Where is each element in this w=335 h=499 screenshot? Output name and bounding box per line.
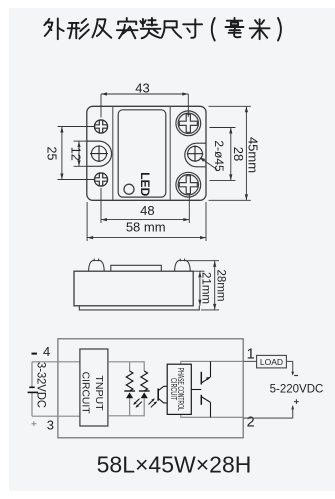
svg-text:25: 25 xyxy=(44,147,58,161)
dimension 25 (left) xyxy=(58,127,95,180)
svg-text:3-32VDC: 3-32VDC xyxy=(34,362,46,408)
output stage gray box xyxy=(181,361,243,417)
LED D1 emission arrows xyxy=(134,399,142,407)
SSR body outline (top view) xyxy=(87,106,206,200)
terminal screw bottom-right xyxy=(176,172,201,197)
米 xyxy=(250,19,270,39)
mounting hole right (circle + thin cross) xyxy=(187,145,204,162)
svg-text:58L×45W×28H: 58L×45W×28H xyxy=(97,452,252,478)
input circuit box U1 xyxy=(80,349,108,426)
side view body xyxy=(74,271,193,306)
（ xyxy=(212,18,215,41)
mounting hole left (circle + thin cross) xyxy=(90,145,108,162)
dimension 21mm (side) xyxy=(194,271,205,306)
LED D1 triangle xyxy=(126,392,133,398)
svg-text:58 mm: 58 mm xyxy=(126,220,166,235)
screw bottom-left xyxy=(94,173,107,186)
wire terminal 1 to LOAD xyxy=(243,360,256,362)
dimension 48 (bottom) xyxy=(101,188,189,223)
毫 xyxy=(226,18,244,37)
transistor Q2 emitter wire xyxy=(210,402,212,417)
minus polarity mark xyxy=(32,353,37,355)
svg-text:28: 28 xyxy=(231,147,246,161)
svg-text:LOAD: LOAD xyxy=(260,357,283,367)
left internal divider line xyxy=(112,106,114,200)
dimension 43 (top) xyxy=(101,94,188,118)
外 xyxy=(44,18,63,39)
phototransistor collector lead xyxy=(158,386,167,390)
形 xyxy=(68,19,89,39)
svg-text:48: 48 xyxy=(140,203,154,218)
wire branch R1 xyxy=(129,362,131,416)
） xyxy=(278,18,281,41)
side view baseplate xyxy=(79,306,199,310)
right internal divider line xyxy=(169,106,171,200)
LED D2 cathode bar xyxy=(139,390,150,392)
svg-text:4: 4 xyxy=(43,344,50,359)
wire bottom rail (input side) xyxy=(108,398,144,415)
LED indicator circle xyxy=(124,184,134,194)
LOAD box xyxy=(257,355,287,368)
dimension 28mm (side) xyxy=(187,261,220,310)
screw head dome left (side view) xyxy=(89,259,105,272)
svg-text:TNPUT: TNPUT xyxy=(93,375,105,411)
及 xyxy=(92,19,111,37)
svg-text:CIRCUIT: CIRCUIT xyxy=(79,372,91,414)
transistor Q2 collector wire xyxy=(210,361,212,377)
label area rounded rect xyxy=(118,110,166,197)
svg-text:CIRCUIT: CIRCUIT xyxy=(169,378,178,400)
wire terminal 4 xyxy=(32,361,80,363)
leader 2-phi4.5 xyxy=(201,158,218,170)
dimension 28 (right) xyxy=(210,128,236,181)
mounting slot left (half stadium) xyxy=(87,141,112,166)
wire LOAD to supply minus xyxy=(286,361,292,373)
装 xyxy=(140,18,160,38)
wire left loop (input source) xyxy=(32,362,80,416)
title 外形及安装尺寸（毫米） hand-drawn CJK strokes xyxy=(44,18,281,41)
寸 xyxy=(183,19,202,38)
side view top terminal cover strip xyxy=(111,265,162,271)
svg-text:21mm: 21mm xyxy=(199,272,211,304)
wire supply plus to terminal 2 xyxy=(243,406,293,418)
screw top-left xyxy=(94,120,107,133)
dimension 12 (left slot) xyxy=(74,141,87,166)
svg-text:5-220VDC: 5-220VDC xyxy=(270,384,324,396)
resistor R1 (zigzag) xyxy=(126,371,133,391)
phase control circuit box U2 xyxy=(167,364,191,414)
battery short plate (negative) xyxy=(29,386,34,388)
svg-text:LED: LED xyxy=(138,172,152,196)
LED D2 triangle (optocoupler LED) xyxy=(141,392,148,398)
terminal screw top-right xyxy=(176,111,201,136)
svg-text:43: 43 xyxy=(135,81,149,96)
phototransistor Q1 base bar xyxy=(157,389,159,401)
transistor Q2 emitter diagonal with arrow xyxy=(201,377,210,383)
optocoupler light arrows xyxy=(149,399,157,407)
svg-text:2-ø45: 2-ø45 xyxy=(212,140,226,172)
LED D1 cathode bar xyxy=(124,390,135,392)
transistor Q2 lower bar xyxy=(200,395,202,405)
transistor Q2 upper bar xyxy=(200,372,202,385)
supply minus mark xyxy=(294,375,298,377)
svg-text:2: 2 xyxy=(247,414,255,430)
transistor Q2 base wire xyxy=(191,389,201,391)
尺 xyxy=(161,21,181,38)
dimension 58mm (bottom) xyxy=(87,202,206,241)
svg-text:1: 1 xyxy=(247,347,255,363)
resistor R2 (zigzag) xyxy=(141,371,148,391)
wire top rail (input side) xyxy=(108,362,144,371)
battery long plate (positive) xyxy=(28,391,38,393)
transistor Q2 lower diagonal xyxy=(201,397,210,403)
svg-text:45mm: 45mm xyxy=(245,137,260,173)
svg-text:28mm: 28mm xyxy=(215,270,227,302)
安 xyxy=(117,18,138,38)
screw head dome right (side view) xyxy=(175,259,191,272)
plus polarity mark xyxy=(32,421,37,426)
supply plus mark xyxy=(294,399,299,404)
mounting slot right (half stadium) xyxy=(185,143,206,167)
phototransistor emitter lead xyxy=(158,398,167,403)
svg-text:3: 3 xyxy=(47,417,54,432)
svg-text:12: 12 xyxy=(69,147,83,161)
SSR outer box xyxy=(58,339,243,438)
dimension 45mm (far right) xyxy=(209,106,251,200)
